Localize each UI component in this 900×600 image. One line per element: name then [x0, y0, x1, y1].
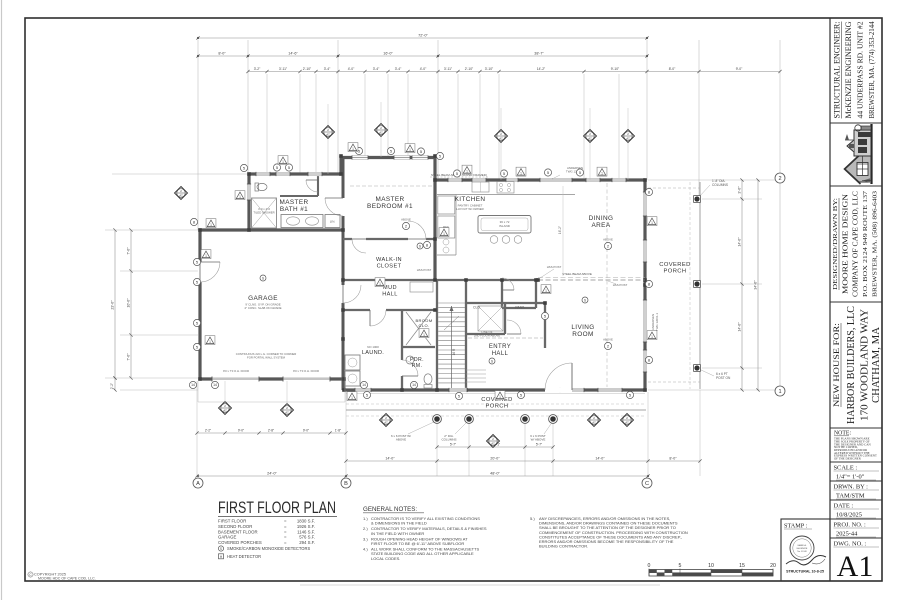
- svg-text:10'-0": 10'-0": [127, 298, 131, 308]
- svg-text:16 R: 16 R: [452, 348, 456, 355]
- svg-text:5: 5: [679, 563, 682, 569]
- svg-text:3'-4": 3'-4": [324, 67, 331, 71]
- svg-text:MOORE HDC OF CAPE COD, LLC.: MOORE HDC OF CAPE COD, LLC.: [38, 577, 96, 581]
- svg-text:CLOSET: CLOSET: [377, 263, 402, 269]
- svg-text:A1: A1: [837, 550, 874, 583]
- svg-text:PROJ. NO. :: PROJ. NO. :: [834, 522, 867, 529]
- svg-text:LAUND.: LAUND.: [362, 350, 384, 356]
- svg-text:3'-11": 3'-11": [279, 67, 288, 71]
- svg-text:3.): 3.): [363, 536, 368, 541]
- svg-text:1: 1: [423, 333, 425, 337]
- svg-text:8'-0": 8'-0": [218, 52, 226, 56]
- svg-text:A7: A7: [326, 132, 330, 136]
- svg-text:15: 15: [739, 563, 745, 569]
- svg-text:20: 20: [770, 563, 776, 569]
- svg-text:1: 1: [205, 254, 207, 258]
- svg-text:9'-0": 9'-0": [303, 429, 309, 433]
- svg-text:2025-44: 2025-44: [836, 531, 858, 538]
- svg-text:MARK A.: MARK A.: [798, 544, 807, 547]
- svg-text:2'-10": 2'-10": [465, 67, 474, 71]
- svg-text:MASTER: MASTER: [279, 199, 308, 206]
- svg-text:A7: A7: [491, 441, 495, 445]
- svg-text:3'-4": 3'-4": [395, 67, 402, 71]
- svg-text:BATH #1: BATH #1: [280, 206, 308, 213]
- svg-text:14'-2": 14'-2": [537, 67, 546, 71]
- svg-text:1: 1: [379, 282, 381, 286]
- svg-text:2.): 2.): [363, 526, 368, 531]
- svg-text:9'-10": 9'-10": [611, 67, 620, 71]
- svg-text:9'0 x 7'0 O.H. DOOR: 9'0 x 7'0 O.H. DOOR: [293, 369, 319, 373]
- svg-text:23'-0": 23'-0": [111, 300, 115, 310]
- svg-text:1: 1: [545, 289, 547, 293]
- svg-text:CLO.: CLO.: [419, 323, 430, 328]
- svg-text:ENTRY: ENTRY: [489, 344, 511, 350]
- svg-text:3'-4": 3'-4": [373, 67, 380, 71]
- svg-text:1146 S.F.: 1146 S.F.: [297, 529, 315, 534]
- svg-text:HARBOR BUILDERS, LLC: HARBOR BUILDERS, LLC: [846, 306, 857, 424]
- svg-text:4.): 4.): [363, 547, 368, 552]
- svg-text:1: 1: [520, 172, 522, 176]
- svg-text:STRUCTURAL ENGINEER:: STRUCTURAL ENGINEER:: [833, 22, 842, 119]
- svg-text:8'-0": 8'-0": [669, 457, 677, 461]
- svg-text:TWG 12061-1: TWG 12061-1: [655, 313, 659, 332]
- svg-text:170 WOODLAND WAY: 170 WOODLAND WAY: [860, 309, 871, 421]
- svg-text:COVERED PORCHES: COVERED PORCHES: [218, 540, 262, 545]
- svg-text:C: C: [645, 481, 649, 487]
- svg-text:2: 2: [778, 176, 781, 182]
- svg-text:1: 1: [651, 335, 653, 339]
- svg-text:SECOND FLOOR: SECOND FLOOR: [218, 524, 252, 529]
- svg-text:5.): 5.): [530, 516, 535, 521]
- svg-text:ISLAND: ISLAND: [499, 224, 511, 228]
- svg-text:CLO.: CLO.: [473, 306, 481, 310]
- svg-text:7'-0": 7'-0": [127, 247, 131, 255]
- svg-text:McKENZIE: McKENZIE: [797, 548, 808, 550]
- svg-text:ABOVE: ABOVE: [401, 218, 411, 222]
- svg-text:RM.: RM.: [412, 363, 423, 369]
- svg-text:DATE :: DATE :: [834, 503, 854, 510]
- svg-text:BREWSTER, MA. (774) 353-2144: BREWSTER, MA. (774) 353-2144: [868, 21, 876, 118]
- svg-text:HALL: HALL: [382, 291, 398, 297]
- svg-text:STAMP :: STAMP :: [784, 523, 807, 530]
- svg-text:COMPANY OF CAPE COD, LLC: COMPANY OF CAPE COD, LLC: [852, 191, 860, 297]
- svg-text:A7: A7: [379, 130, 383, 134]
- svg-text:HSS POST: HSS POST: [417, 268, 432, 272]
- svg-text:48'-0": 48'-0": [490, 472, 500, 476]
- svg-text:4" CONC. SLAB ON GRADE: 4" CONC. SLAB ON GRADE: [244, 306, 281, 310]
- svg-text:DRWN. BY :: DRWN. BY :: [834, 484, 869, 491]
- svg-text:No. 51348: No. 51348: [797, 551, 807, 553]
- svg-text:5'-7": 5'-7": [536, 443, 542, 447]
- svg-text:B: B: [344, 481, 348, 487]
- svg-text:COVERED: COVERED: [659, 262, 690, 268]
- svg-text:STRUCTURAL 10-8-25: STRUCTURAL 10-8-25: [786, 570, 824, 574]
- svg-text:1'-8": 1'-8": [335, 429, 341, 433]
- svg-text:NEW HOUSE FOR:: NEW HOUSE FOR:: [832, 323, 841, 407]
- svg-text:2'-8": 2'-8": [268, 429, 274, 433]
- svg-text:16'-0": 16'-0": [383, 52, 393, 56]
- svg-text:1: 1: [209, 340, 211, 344]
- svg-text:SCALE :: SCALE :: [834, 465, 858, 472]
- svg-text:HSS POST: HSS POST: [547, 265, 562, 269]
- svg-text:A7: A7: [223, 408, 227, 412]
- svg-text:1.): 1.): [363, 516, 368, 521]
- svg-text:14: 14: [362, 383, 366, 387]
- svg-text:FOR PORTAL WALL SYSTEM: FOR PORTAL WALL SYSTEM: [247, 356, 286, 360]
- svg-text:9'-0": 9'-0": [736, 67, 743, 71]
- svg-text:GARAGE: GARAGE: [218, 535, 237, 540]
- svg-text:0: 0: [648, 563, 651, 569]
- svg-text:A7: A7: [588, 136, 592, 140]
- svg-text:3'-11": 3'-11": [444, 67, 453, 71]
- svg-text:10/8/2025: 10/8/2025: [836, 512, 862, 519]
- svg-text:COLUMNS: COLUMNS: [712, 183, 728, 187]
- svg-text:BREWSTER, MA. (508) 896-6403: BREWSTER, MA. (508) 896-6403: [872, 190, 879, 297]
- svg-text:3'-0": 3'-0": [738, 186, 742, 194]
- svg-text:MASTER: MASTER: [375, 196, 404, 203]
- svg-text:DWG. NO. :: DWG. NO. :: [834, 541, 867, 548]
- svg-text:5'-7": 5'-7": [450, 443, 456, 447]
- svg-text:14'-6": 14'-6": [288, 52, 298, 56]
- svg-text:CHATHAM, MA: CHATHAM, MA: [871, 327, 882, 403]
- svg-text:1: 1: [778, 389, 781, 395]
- svg-text:44 UNDERPASS RD. UNIT #2: 44 UNDERPASS RD. UNIT #2: [856, 21, 865, 118]
- svg-text:A7: A7: [499, 136, 503, 140]
- svg-text:4'-0": 4'-0": [420, 67, 427, 71]
- svg-text:NO 100#: NO 100#: [367, 345, 379, 349]
- svg-text:A7: A7: [625, 420, 629, 424]
- svg-text:1: 1: [601, 172, 603, 176]
- svg-text:A7: A7: [285, 410, 289, 414]
- svg-text:McKENZIE ENGINEERING: McKENZIE ENGINEERING: [844, 21, 853, 118]
- svg-text:7'-0": 7'-0": [127, 353, 131, 361]
- svg-text:A: A: [196, 481, 200, 487]
- svg-text:PORCH: PORCH: [486, 404, 509, 410]
- svg-text:PORCH: PORCH: [664, 269, 687, 275]
- svg-text:2'-10": 2'-10": [303, 67, 312, 71]
- svg-text:WALK-IN: WALK-IN: [376, 257, 402, 263]
- svg-text:FIRST FLOOR: FIRST FLOOR: [218, 519, 246, 524]
- svg-text:14: 14: [213, 383, 217, 387]
- svg-text:BEDROOM #1: BEDROOM #1: [367, 203, 413, 210]
- svg-text:SMOKE/CARBON MONOXIDE DETECTOR: SMOKE/CARBON MONOXIDE DETECTORS: [227, 546, 310, 551]
- svg-text:FIRST FLOOR PLAN: FIRST FLOOR PLAN: [218, 498, 336, 517]
- svg-text:1: 1: [210, 223, 212, 227]
- svg-text:38'-7": 38'-7": [534, 52, 544, 56]
- svg-text:3'-10": 3'-10": [485, 67, 494, 71]
- svg-text:1: 1: [239, 195, 241, 199]
- svg-text:2'-2": 2'-2": [205, 429, 211, 433]
- svg-text:1: 1: [499, 395, 501, 399]
- svg-text:A7: A7: [384, 420, 388, 424]
- svg-text:S: S: [220, 547, 222, 551]
- svg-text:14'-0": 14'-0": [738, 322, 742, 332]
- svg-text:2ND FLOOR ABOVE: 2ND FLOOR ABOVE: [474, 334, 500, 338]
- svg-text:ABOVE: ABOVE: [603, 338, 613, 342]
- svg-text:& DIMENSIONS IN THE FIELD: & DIMENSIONS IN THE FIELD: [371, 521, 427, 526]
- svg-text:4'-0": 4'-0": [348, 67, 355, 71]
- svg-text:IN THE FIELD WITH OWNER: IN THE FIELD WITH OWNER: [371, 531, 424, 536]
- svg-text:14'-0": 14'-0": [385, 457, 395, 461]
- svg-text:DINING: DINING: [589, 215, 614, 222]
- svg-text:DESIGNED/DRAWN BY:: DESIGNED/DRAWN BY:: [832, 198, 839, 290]
- svg-text:14: 14: [412, 383, 416, 387]
- svg-text:OF THE DESIGNER: OF THE DESIGNER: [834, 457, 862, 461]
- svg-text:ABOVE: ABOVE: [396, 438, 406, 442]
- svg-text:KITCHEN: KITCHEN: [455, 196, 486, 203]
- svg-text:1926 S.F.: 1926 S.F.: [297, 524, 315, 529]
- svg-text:1: 1: [409, 148, 411, 152]
- svg-text:ABOVE: ABOVE: [603, 238, 613, 242]
- svg-text:9'-0": 9'-0": [238, 429, 244, 433]
- svg-text:HEAT DETECTOR: HEAT DETECTOR: [227, 554, 261, 559]
- svg-text:A7: A7: [626, 136, 630, 140]
- svg-text:1: 1: [443, 232, 445, 236]
- svg-text:1: 1: [651, 221, 653, 225]
- svg-text:P.O. BOX 2124 949 ROUTE 137: P.O. BOX 2124 949 ROUTE 137: [862, 190, 869, 297]
- svg-text:14: 14: [191, 383, 195, 387]
- svg-text:1830 S.F.: 1830 S.F.: [297, 519, 315, 524]
- svg-text:LIN.: LIN.: [330, 220, 336, 224]
- svg-text:1: 1: [466, 170, 468, 174]
- svg-text:294 S.F.: 294 S.F.: [299, 540, 315, 545]
- svg-text:LIVING: LIVING: [571, 324, 594, 331]
- svg-text:POST ON: POST ON: [716, 376, 731, 380]
- svg-text:PANT.: PANT.: [515, 306, 524, 310]
- svg-text:1: 1: [351, 396, 353, 400]
- svg-text:A7: A7: [179, 193, 183, 197]
- svg-text:LAYOUT W/ OWNER: LAYOUT W/ OWNER: [456, 207, 484, 211]
- svg-text:24'-0": 24'-0": [267, 472, 277, 476]
- svg-text:14'-0": 14'-0": [738, 237, 742, 247]
- svg-text:MOORE HOME DESIGN: MOORE HOME DESIGN: [841, 193, 850, 294]
- svg-text:14'-0": 14'-0": [595, 457, 605, 461]
- svg-text:BUILDING CONTRACTOR.: BUILDING CONTRACTOR.: [539, 544, 588, 549]
- svg-text:3'-2": 3'-2": [254, 67, 261, 71]
- svg-text:20'-0": 20'-0": [490, 457, 500, 461]
- svg-text:BASEMENT FLOOR: BASEMENT FLOOR: [218, 529, 258, 534]
- svg-text:AREA: AREA: [591, 222, 610, 229]
- svg-text:TAM/STM: TAM/STM: [836, 493, 865, 500]
- svg-text:576 S.F.: 576 S.F.: [299, 535, 315, 540]
- svg-text:8'-0": 8'-0": [669, 67, 676, 71]
- svg-text:FIRST FLOOR TO BE @ 6'-11" ABO: FIRST FLOOR TO BE @ 6'-11" ABOVE SUBFLOO…: [371, 541, 464, 546]
- svg-text:GENERAL NOTES:: GENERAL NOTES:: [363, 506, 417, 513]
- svg-text:COLUMNS: COLUMNS: [441, 438, 456, 442]
- svg-text:72'-0": 72'-0": [418, 34, 428, 38]
- svg-text:10: 10: [708, 563, 714, 569]
- svg-text:LOCAL CODES.: LOCAL CODES.: [371, 556, 400, 561]
- svg-text:W/ ABOVE: W/ ABOVE: [531, 438, 546, 442]
- svg-text:9'0 x 7'0 O.H. DOOR: 9'0 x 7'0 O.H. DOOR: [223, 369, 249, 373]
- svg-text:2'-2": 2'-2": [110, 383, 114, 389]
- svg-text:GARAGE: GARAGE: [248, 295, 278, 302]
- svg-text:34'-0": 34'-0": [754, 280, 758, 290]
- svg-text:16'-2": 16'-2": [558, 226, 562, 234]
- svg-text:1/4"= 1'-0": 1/4"= 1'-0": [836, 474, 865, 481]
- svg-text:STEEL BEAM ABOVE: STEEL BEAM ABOVE: [562, 272, 592, 276]
- svg-text:HALL: HALL: [492, 351, 509, 357]
- svg-text:1: 1: [282, 160, 284, 164]
- svg-text:ROOM: ROOM: [572, 331, 593, 338]
- svg-text:TILED SHOWER: TILED SHOWER: [253, 211, 274, 215]
- svg-text:A7: A7: [592, 420, 596, 424]
- svg-text:1: 1: [352, 147, 354, 151]
